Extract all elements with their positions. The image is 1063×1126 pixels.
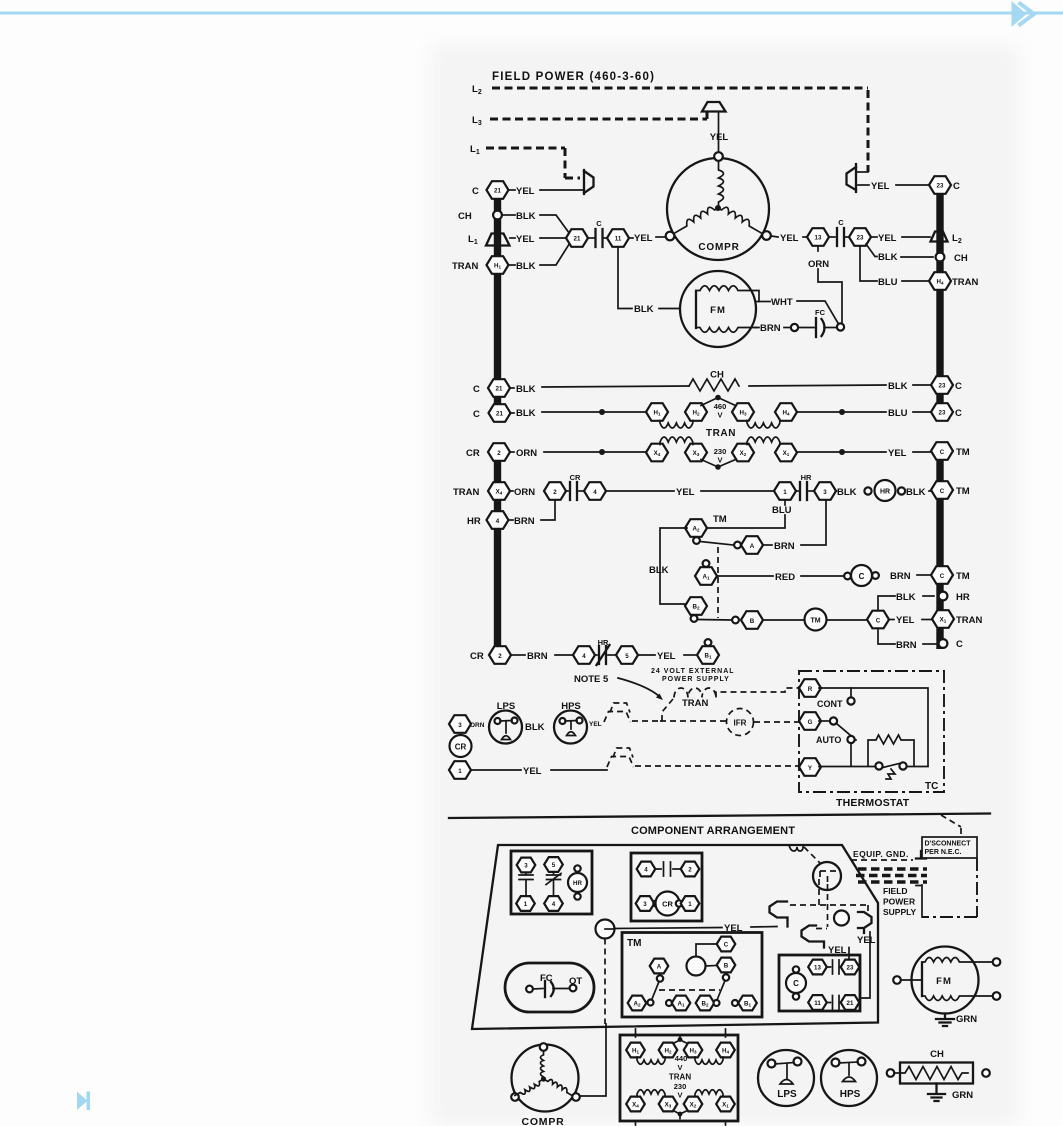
transformer TRAN secondary xyxy=(646,437,797,470)
wire L1 dashed xyxy=(486,148,580,178)
wire TM to C xyxy=(827,619,867,621)
field power bold dashed wires xyxy=(856,869,927,882)
svg-text:TM: TM xyxy=(810,618,820,625)
terminal 3 row491 xyxy=(814,482,836,500)
svg-text:BLK: BLK xyxy=(516,408,536,419)
plug L1 on bus xyxy=(468,234,510,247)
dash-dot disconnect to bracket xyxy=(922,858,977,917)
wire hex11 down to FM xyxy=(618,248,632,309)
box DISCONNECT PER N.E.C. xyxy=(922,837,977,858)
svg-text:YEL: YEL xyxy=(780,233,799,244)
terminal circle mid plugs xyxy=(834,911,849,926)
wire YEL C to X1 xyxy=(889,615,931,626)
wire dashed TRAN to R xyxy=(716,688,799,698)
wire dashed equip gnd xyxy=(851,859,913,861)
svg-text:H2: H2 xyxy=(664,1048,671,1055)
wire dashed IFR to G xyxy=(754,721,799,723)
svg-text:CR: CR xyxy=(470,651,484,662)
svg-text:BRN: BRN xyxy=(514,516,535,527)
fast-forward icon top right xyxy=(1012,1,1035,27)
wire dashed plugs row xyxy=(790,905,868,912)
svg-text:TM: TM xyxy=(956,447,970,458)
svg-text:COMPR: COMPR xyxy=(698,242,739,253)
label 24 VOLT EXTERNAL POWER SUPPLY xyxy=(651,668,735,683)
wire BLK row385 right xyxy=(749,381,930,392)
wire COMPR to grommet vertical xyxy=(580,1024,606,1096)
wire YEL to COMPR left xyxy=(629,233,665,244)
svg-text:HPS: HPS xyxy=(840,1089,861,1100)
terminal dot FC right xyxy=(837,323,844,330)
svg-text:H1: H1 xyxy=(494,263,501,270)
svg-text:TRAN: TRAN xyxy=(706,428,736,439)
plug right field (row 185) xyxy=(847,164,869,192)
svg-text:4: 4 xyxy=(644,867,648,874)
terminal CR-2 row452 xyxy=(466,443,510,461)
heater CH arrangement xyxy=(887,1049,990,1101)
svg-text:CH: CH xyxy=(710,370,724,381)
svg-text:TRAN: TRAN xyxy=(956,615,983,626)
pressure switch HPS xyxy=(554,701,587,744)
svg-text:V: V xyxy=(677,1091,682,1100)
mounting notch on top edge xyxy=(789,845,803,851)
junction dot row452 left xyxy=(599,449,605,455)
svg-text:23: 23 xyxy=(847,965,854,972)
svg-text:HR: HR xyxy=(573,880,582,887)
svg-text:BLK: BLK xyxy=(906,487,926,498)
svg-text:IFR: IFR xyxy=(734,719,747,728)
terminal HR-4 row520 xyxy=(467,511,509,529)
relay coil HR xyxy=(875,480,896,501)
svg-text:THERMOSTAT: THERMOSTAT xyxy=(836,797,910,809)
svg-text:X4: X4 xyxy=(654,450,661,457)
wire BLK HR right xyxy=(906,487,930,498)
svg-text:H4: H4 xyxy=(782,410,789,417)
wire BLK to hex21 lower xyxy=(509,244,570,273)
svg-text:BRN: BRN xyxy=(527,651,548,662)
svg-text:B1: B1 xyxy=(704,653,711,660)
label FIELD POWER SUPPLY xyxy=(883,886,917,917)
relay CR coil xyxy=(450,735,472,757)
node CH dot left bus xyxy=(458,211,502,222)
terminal A2 xyxy=(685,519,707,537)
junction dot row412 left xyxy=(599,409,605,415)
svg-text:1: 1 xyxy=(458,768,462,775)
svg-text:13: 13 xyxy=(815,235,822,242)
svg-text:11: 11 xyxy=(814,1000,821,1007)
svg-text:YEL: YEL xyxy=(657,651,676,662)
wire BRN C to C dot xyxy=(878,629,936,652)
svg-text:COMPR: COMPR xyxy=(521,1116,564,1126)
svg-text:C: C xyxy=(859,572,865,581)
svg-text:X3: X3 xyxy=(665,1102,672,1109)
svg-text:B: B xyxy=(724,963,729,970)
heat anticipator resistor xyxy=(868,735,914,766)
svg-text:BLK: BLK xyxy=(516,211,536,222)
contact HR row491 xyxy=(796,473,814,500)
wire BLK HR left xyxy=(836,487,857,498)
wire BRN A to 3 xyxy=(763,501,826,552)
switch TM-A blade xyxy=(693,537,733,545)
terminal 5 row655 xyxy=(616,646,638,664)
svg-text:B: B xyxy=(750,618,755,625)
wire L3 dashed xyxy=(490,112,707,119)
wire YEL row655 xyxy=(638,651,696,662)
svg-text:C: C xyxy=(838,218,844,227)
svg-text:BRN: BRN xyxy=(890,571,911,582)
svg-text:TRAN: TRAN xyxy=(669,1073,691,1082)
terminal 21 mid xyxy=(566,229,588,247)
wire YEL row491 xyxy=(606,487,774,498)
svg-text:YEL: YEL xyxy=(676,487,695,498)
wire dashed grommet left leg xyxy=(819,879,828,927)
terminal C mid xyxy=(867,611,889,629)
svg-text:B1: B1 xyxy=(744,1001,751,1008)
plug P1 left xyxy=(770,902,788,927)
wire BLK to CH dot right xyxy=(866,244,933,263)
svg-text:YEL: YEL xyxy=(516,234,535,245)
svg-text:H1: H1 xyxy=(632,1048,639,1055)
box HR contacts xyxy=(511,851,592,914)
box TRAN arrangement xyxy=(620,1029,738,1125)
terminal 23 mid right xyxy=(849,228,871,246)
terminal C-23 row412 xyxy=(931,403,962,421)
svg-text:YEL: YEL xyxy=(589,721,602,728)
wire BRN C row575 xyxy=(890,571,930,582)
svg-text:HR: HR xyxy=(801,473,812,482)
svg-text:4: 4 xyxy=(552,901,556,908)
timer coil TM xyxy=(805,609,827,631)
pressure switch LPS arrangement xyxy=(758,1050,814,1106)
wire BLU hex1 down xyxy=(706,501,792,528)
svg-text:3: 3 xyxy=(643,901,647,908)
terminal CR-2 row655 xyxy=(470,646,511,664)
svg-text:H3: H3 xyxy=(739,410,746,417)
svg-text:C: C xyxy=(473,409,480,420)
svg-text:LPS: LPS xyxy=(777,1089,797,1100)
svg-text:YEL: YEL xyxy=(857,935,876,946)
terminal dot HR left xyxy=(864,487,871,494)
plug L2 on bus xyxy=(931,232,962,246)
svg-text:G: G xyxy=(808,719,813,726)
pressure switch LPS xyxy=(489,701,522,744)
svg-text:21: 21 xyxy=(494,188,501,195)
terminal Y xyxy=(799,758,821,776)
svg-text:ORN: ORN xyxy=(514,487,535,498)
svg-text:FC: FC xyxy=(815,308,826,317)
box C capacitors xyxy=(779,955,860,1011)
wire BRN FM xyxy=(755,323,790,334)
terminal C-23 top right bus xyxy=(929,176,960,194)
wire dashed to IFR xyxy=(632,720,726,722)
contact HR NC row655 xyxy=(595,638,615,665)
contactor coil C xyxy=(851,565,872,586)
svg-text:A2: A2 xyxy=(633,1001,640,1008)
svg-text:2: 2 xyxy=(553,489,557,496)
svg-text:A: A xyxy=(657,964,662,971)
wire WHT xyxy=(757,297,839,324)
terminal 11 xyxy=(607,229,629,247)
svg-text:SUPPLY: SUPPLY xyxy=(883,907,917,917)
svg-text:FIELD POWER (460-3-60): FIELD POWER (460-3-60) xyxy=(492,71,655,83)
svg-text:21: 21 xyxy=(847,1000,854,1007)
plug left field (row 190) xyxy=(584,170,594,194)
grommet circle xyxy=(596,920,615,939)
svg-text:TM: TM xyxy=(713,514,727,525)
svg-text:CR: CR xyxy=(455,743,467,752)
svg-text:C: C xyxy=(956,639,963,650)
svg-text:YEL: YEL xyxy=(871,181,890,192)
svg-text:TM: TM xyxy=(956,571,970,582)
svg-text:YEL: YEL xyxy=(523,766,542,777)
svg-text:C: C xyxy=(876,618,881,625)
wire YEL row452 right xyxy=(797,448,930,459)
svg-text:BLK: BLK xyxy=(525,722,545,733)
terminal X1-TRAN row619 xyxy=(932,610,983,628)
svg-text:HPS: HPS xyxy=(561,701,581,712)
terminal C-TM row490 xyxy=(931,481,970,499)
wire ORN row491 xyxy=(510,487,535,498)
wire L2 dashed xyxy=(492,88,868,172)
svg-text:A2: A2 xyxy=(692,526,699,533)
svg-text:21: 21 xyxy=(574,236,581,243)
wire BLK row388 xyxy=(510,384,689,395)
svg-text:C: C xyxy=(955,381,962,392)
svg-text:BLU: BLU xyxy=(878,277,898,288)
svg-text:YEL: YEL xyxy=(896,615,915,626)
motor COMPR xyxy=(666,152,771,260)
terminal 4 row655 xyxy=(573,646,595,664)
wire YEL to L2 plug xyxy=(871,233,930,244)
svg-text:B2: B2 xyxy=(701,1001,708,1008)
top blue rule xyxy=(0,12,1063,15)
svg-text:NOTE 5: NOTE 5 xyxy=(574,674,609,685)
svg-text:3: 3 xyxy=(458,722,462,729)
terminal dot B left xyxy=(732,617,739,624)
wire ORN from 13 xyxy=(808,247,842,322)
terminal C-21 top left bus xyxy=(487,181,509,199)
svg-text:TRAN: TRAN xyxy=(453,487,480,498)
junction dot row412 right xyxy=(839,409,845,415)
terminal H1 left bus xyxy=(452,256,509,274)
svg-text:5: 5 xyxy=(625,653,629,660)
svg-text:YEL: YEL xyxy=(828,945,847,956)
thermostat box TC xyxy=(799,671,944,809)
terminal dot BRN xyxy=(791,324,798,331)
svg-text:FM: FM xyxy=(710,305,726,316)
svg-text:YEL: YEL xyxy=(634,233,653,244)
svg-text:V: V xyxy=(717,456,722,465)
wire dashed disconnect leader xyxy=(941,815,961,837)
svg-text:HR: HR xyxy=(467,516,481,527)
wire dashed grommet down xyxy=(604,939,606,1025)
svg-text:H4: H4 xyxy=(722,1048,729,1055)
svg-text:23: 23 xyxy=(939,410,946,417)
svg-text:X4: X4 xyxy=(632,1102,639,1109)
capacitor C row237 right xyxy=(829,218,849,246)
svg-text:GRN: GRN xyxy=(952,1090,973,1101)
terminal C-21 row388 xyxy=(473,379,510,397)
wire BLK C to HR dot xyxy=(878,592,934,611)
svg-text:C: C xyxy=(793,979,799,988)
capacitor CR contact xyxy=(566,473,584,500)
connector plug pair lower xyxy=(607,748,634,767)
svg-text:CH: CH xyxy=(954,253,968,264)
bracket field power supply xyxy=(916,885,922,917)
svg-text:X1: X1 xyxy=(940,617,947,624)
svg-text:V: V xyxy=(677,1063,682,1072)
svg-text:TM: TM xyxy=(627,938,641,949)
svg-text:BLK: BLK xyxy=(896,592,916,603)
svg-text:A1: A1 xyxy=(702,574,709,581)
svg-text:C: C xyxy=(724,942,729,949)
svg-text:21: 21 xyxy=(496,386,503,393)
svg-text:FM: FM xyxy=(936,976,952,987)
wire dashed TRAN left down xyxy=(662,699,673,721)
svg-text:HR: HR xyxy=(598,638,609,647)
svg-text:H4: H4 xyxy=(936,279,943,286)
svg-text:X1: X1 xyxy=(783,450,790,457)
svg-text:23: 23 xyxy=(857,235,864,242)
contact CONT xyxy=(817,688,855,709)
wire YEL grommet to plug xyxy=(614,923,777,934)
svg-text:13: 13 xyxy=(814,965,821,972)
svg-text:BRN: BRN xyxy=(774,541,795,552)
terminal dot A left xyxy=(734,542,741,549)
svg-text:BRN: BRN xyxy=(760,323,781,334)
terminal 3 hex xyxy=(449,715,471,733)
relay IFR dashed xyxy=(727,709,754,736)
wire dashed to Y xyxy=(635,765,799,767)
svg-text:BLK: BLK xyxy=(516,261,536,272)
svg-text:X3: X3 xyxy=(693,450,700,457)
svg-text:3: 3 xyxy=(524,863,528,870)
svg-text:PER N.E.C.: PER N.E.C. xyxy=(925,849,962,856)
svg-text:CONT: CONT xyxy=(817,699,843,709)
link dashed TM switches xyxy=(717,547,719,618)
capacitor C row238 xyxy=(588,219,607,247)
svg-text:CR: CR xyxy=(466,448,480,459)
svg-text:C: C xyxy=(955,408,962,419)
svg-text:CH: CH xyxy=(458,211,472,222)
svg-text:R: R xyxy=(808,686,813,693)
svg-text:TRAN: TRAN xyxy=(952,277,979,288)
wire row412 right xyxy=(797,408,930,419)
switch AUTO blade xyxy=(816,717,856,766)
svg-text:ORN: ORN xyxy=(470,722,485,729)
svg-text:4: 4 xyxy=(496,518,500,525)
terminal 13 xyxy=(807,228,829,246)
svg-text:H3: H3 xyxy=(689,1048,696,1055)
transformer TRAN primary xyxy=(646,395,797,439)
wire BRN row520 xyxy=(509,501,555,527)
svg-text:440: 440 xyxy=(675,1054,688,1063)
svg-text:2: 2 xyxy=(688,867,692,874)
svg-text:H1: H1 xyxy=(653,410,660,417)
terminal A xyxy=(741,536,763,554)
svg-text:X1: X1 xyxy=(722,1102,729,1109)
svg-text:23: 23 xyxy=(939,383,946,390)
terminal 1 row491 xyxy=(774,482,796,500)
svg-text:BLK: BLK xyxy=(878,252,898,263)
node C dot right bus xyxy=(939,639,963,650)
terminal A1 xyxy=(695,560,717,585)
svg-text:COMPONENT ARRANGEMENT: COMPONENT ARRANGEMENT xyxy=(631,825,795,837)
wire BLK to hex21 xyxy=(503,211,570,234)
svg-text:TRAN: TRAN xyxy=(452,261,479,272)
svg-text:YEL: YEL xyxy=(710,132,729,143)
label NOTE 5 with leader xyxy=(574,674,663,700)
wire BLK row412 xyxy=(510,408,646,419)
svg-text:YEL: YEL xyxy=(878,233,897,244)
svg-text:C: C xyxy=(473,384,480,395)
svg-text:BLU: BLU xyxy=(772,505,792,516)
svg-text:TM: TM xyxy=(956,486,970,497)
svg-text:BLK: BLK xyxy=(516,384,536,395)
wire YEL right top xyxy=(858,181,929,192)
wire dashed plug P3 xyxy=(816,928,827,930)
node CH dot right bus xyxy=(936,253,968,264)
terminal dot C left xyxy=(844,573,851,580)
terminal C-21 row413 xyxy=(473,404,511,422)
junction dot row452 right xyxy=(839,449,845,455)
terminal C-23 row385 xyxy=(931,376,962,394)
terminal R xyxy=(799,679,821,697)
plug P2 right xyxy=(857,912,876,998)
svg-text:3: 3 xyxy=(823,489,827,496)
svg-text:24 VOLT EXTERNAL: 24 VOLT EXTERNAL xyxy=(651,668,735,675)
svg-text:11: 11 xyxy=(615,236,622,243)
terminal dot HR right xyxy=(898,487,905,494)
wire B to TM xyxy=(763,619,804,621)
svg-text:CR: CR xyxy=(662,900,673,909)
ground symbol NEC xyxy=(916,851,926,859)
node HR dot right bus xyxy=(939,592,970,603)
svg-text:C: C xyxy=(940,449,945,456)
svg-text:A1: A1 xyxy=(677,1001,684,1008)
svg-text:C: C xyxy=(940,488,945,495)
plug L3 top xyxy=(702,102,726,152)
svg-text:V: V xyxy=(717,411,722,420)
svg-text:1: 1 xyxy=(783,489,787,496)
right bus bar xyxy=(936,181,943,421)
terminal C-TM row575 xyxy=(931,566,970,584)
wire R to right side xyxy=(819,688,928,766)
switch TM-B blade xyxy=(691,615,731,622)
switch thermostat contacts xyxy=(819,762,928,779)
svg-text:2: 2 xyxy=(497,450,501,457)
connector plug pair upper xyxy=(604,703,631,722)
terminal TRAN-X4 row491 xyxy=(453,482,510,500)
terminal B2 xyxy=(685,597,707,615)
terminal G xyxy=(799,712,821,730)
svg-text:RED: RED xyxy=(775,572,795,583)
svg-text:C: C xyxy=(596,219,602,228)
capacitor FC xyxy=(798,308,836,337)
box TM timer xyxy=(622,933,762,1018)
svg-text:ORN: ORN xyxy=(516,448,537,459)
svg-text:BLK: BLK xyxy=(649,565,669,576)
svg-text:D'SCONNECT: D'SCONNECT xyxy=(925,841,972,848)
terminal B xyxy=(741,611,763,629)
wire dashed equip gnd diagonal xyxy=(804,847,821,864)
svg-text:CH: CH xyxy=(930,1049,944,1060)
wire BLK A2 to B2 xyxy=(649,528,687,604)
svg-text:21: 21 xyxy=(496,411,503,418)
svg-text:4: 4 xyxy=(593,489,597,496)
svg-text:AUTO: AUTO xyxy=(816,735,841,745)
svg-text:CR: CR xyxy=(570,473,581,482)
terminal B1 row655 xyxy=(697,639,719,664)
